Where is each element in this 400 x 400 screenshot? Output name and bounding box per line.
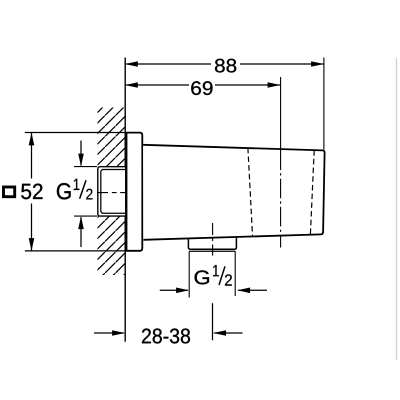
dim 69 line (125, 84, 189, 86)
flange (127, 133, 143, 251)
dim 69 arrow right (268, 82, 281, 88)
dim 28-38 text (142, 328, 190, 343)
dim 52 arrow down (29, 238, 35, 251)
left G1/2 top edge extension (74, 166, 97, 168)
outlet axis center line (212, 223, 214, 256)
dim 69 text (191, 81, 212, 95)
wall face line (124, 58, 126, 342)
cavity hidden line right (310, 150, 314, 234)
bottom G1/2 arrow left (160, 289, 188, 291)
bottom G1/2 text (195, 270, 209, 284)
dim 28-38 arrow right (214, 332, 243, 334)
square symbol (4, 187, 15, 197)
wall connector G1/2 thread outer (98, 167, 125, 216)
dim 52 text (21, 184, 42, 200)
left G1/2 text (57, 183, 71, 199)
connector center line (97, 192, 134, 194)
outlet nipple (188, 238, 236, 250)
wall hatching upper (98, 108, 125, 167)
holder body outline (143, 145, 325, 240)
left G1/2 arrow top (80, 141, 82, 166)
dim 88 arrow right (311, 61, 324, 67)
outlet extension line left (188, 251, 190, 297)
cavity axis center line (69 extension) (280, 77, 282, 151)
wall hatching lower (98, 216, 125, 275)
dim 52 arrow up (29, 133, 35, 146)
wall connector thread inner lines (101, 170, 125, 214)
dim 88 line (125, 63, 211, 65)
dim 69 arrow left (125, 82, 138, 88)
dim 52 extension top (25, 132, 125, 134)
dim 88 arrow left (125, 61, 138, 67)
88 extension line right (323, 58, 325, 150)
dim 28-38 arrow left (94, 332, 124, 334)
dim 52 extension bottom (25, 250, 139, 252)
cavity hidden line left (248, 148, 253, 237)
left G1/2 arrow bottom (80, 217, 82, 247)
left G1/2 bottom edge extension (74, 215, 97, 217)
outlet extension line right (234, 251, 236, 296)
dim 88 text (215, 59, 236, 73)
bottom G1/2 arrow right (238, 289, 267, 291)
dim 52 line (31, 133, 33, 179)
faint page edge line (396, 58, 398, 360)
